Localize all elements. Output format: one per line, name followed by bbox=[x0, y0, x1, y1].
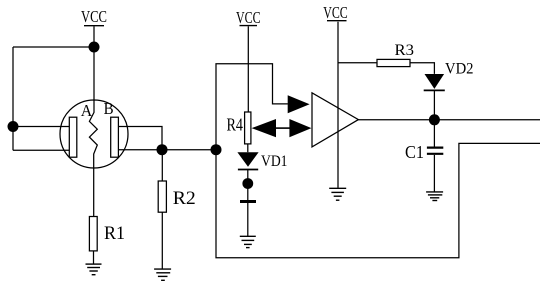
svg-text:R4: R4 bbox=[227, 115, 244, 135]
wire VCC2 stem to R4 bbox=[247, 26, 249, 112]
label VD1 bbox=[261, 153, 288, 170]
capacitor C1 bbox=[427, 148, 443, 154]
junction dot (left branch) bbox=[8, 121, 19, 132]
svg-text:VCC: VCC bbox=[81, 7, 107, 26]
op-amp comparator bbox=[312, 93, 358, 147]
wire R1 to ground bbox=[93, 251, 95, 264]
wire R3 to VD2 bbox=[410, 63, 434, 74]
svg-text:R2: R2 bbox=[173, 188, 196, 209]
diode VD1 bbox=[237, 152, 258, 169]
wire VD1 cathode down to ground bbox=[247, 170, 249, 236]
net label VCC (right) bbox=[323, 3, 348, 22]
label R3 bbox=[395, 42, 415, 59]
ground (R2) bbox=[154, 269, 171, 280]
resistor R4 bbox=[245, 112, 251, 144]
ground (VD1 branch) bbox=[240, 236, 256, 247]
ground (C1) bbox=[426, 192, 443, 201]
label A bbox=[81, 101, 93, 120]
resistor R3 bbox=[377, 59, 410, 66]
electrode plate B bbox=[111, 117, 119, 157]
wire VCC middle underline bbox=[240, 25, 258, 27]
gas sensor envelope circle bbox=[60, 100, 128, 168]
svg-text:R1: R1 bbox=[104, 223, 125, 244]
wire VD2 to output node bbox=[433, 90, 435, 119]
junction dot (VCC1 / feedback) bbox=[89, 42, 100, 53]
wire node2 down to output staircase bbox=[216, 143, 540, 257]
svg-text:R3: R3 bbox=[395, 42, 415, 59]
junction dot node2 bbox=[211, 144, 222, 155]
wire node1 to R2 bbox=[161, 150, 163, 181]
wire to electrode A lower bbox=[13, 149, 69, 151]
net label VCC (left) bbox=[81, 7, 107, 26]
label R4 bbox=[227, 115, 244, 135]
label C1 bbox=[405, 142, 424, 162]
label R2 bbox=[173, 188, 196, 209]
label B bbox=[104, 99, 114, 118]
ground (R1) bbox=[86, 264, 102, 275]
wire left vertical bbox=[12, 47, 14, 150]
wire to electrode A upper bbox=[13, 126, 69, 128]
wire VCC3 branch to R3 bbox=[338, 62, 377, 64]
wire comparator output bbox=[358, 119, 540, 121]
bidirectional signal arrow to lower comparator input bbox=[252, 119, 312, 137]
wire C1 to ground bbox=[433, 155, 435, 192]
ground (comparator) bbox=[329, 188, 346, 200]
wire electrode B lower / main node wire bbox=[118, 149, 216, 151]
wire output node to C1 bbox=[433, 120, 435, 147]
label R1 bbox=[104, 223, 125, 244]
wire VCC left underline bbox=[84, 25, 104, 27]
label VD2 bbox=[445, 61, 474, 78]
svg-text:VD2: VD2 bbox=[445, 61, 474, 78]
heater zigzag element bbox=[89, 100, 97, 168]
svg-text:C1: C1 bbox=[405, 142, 424, 162]
resistor R2 bbox=[158, 181, 166, 212]
signal arrow into upper comparator input bbox=[288, 95, 310, 113]
diode VD2 bbox=[424, 74, 445, 90]
svg-text:B: B bbox=[104, 99, 114, 118]
wire VCC right underline bbox=[327, 20, 347, 22]
junction dot (VD1 node) bbox=[242, 178, 253, 189]
junction dot (output node) bbox=[429, 114, 440, 125]
svg-text:VCC: VCC bbox=[323, 3, 348, 22]
wire top-left horizontal bbox=[13, 46, 94, 48]
svg-text:VCC: VCC bbox=[236, 8, 261, 27]
wire R4 to VD1 bbox=[247, 144, 249, 152]
wire sensor to R1 bbox=[93, 168, 95, 217]
wire electrode B upper to node bbox=[118, 127, 162, 150]
wire VCC3 stem through comparator to ground bbox=[337, 22, 339, 188]
junction dot node1 bbox=[157, 144, 168, 155]
resistor R1 bbox=[89, 217, 97, 251]
wire VCC1 stem bbox=[93, 26, 95, 101]
wire R2 to ground bbox=[161, 212, 163, 269]
capacitor plate bar bbox=[240, 200, 256, 203]
wire node2 up and over to comparator input bbox=[216, 64, 288, 150]
net label VCC (middle) bbox=[236, 8, 261, 27]
electrode plate A bbox=[69, 117, 77, 157]
svg-text:VD1: VD1 bbox=[261, 153, 288, 170]
